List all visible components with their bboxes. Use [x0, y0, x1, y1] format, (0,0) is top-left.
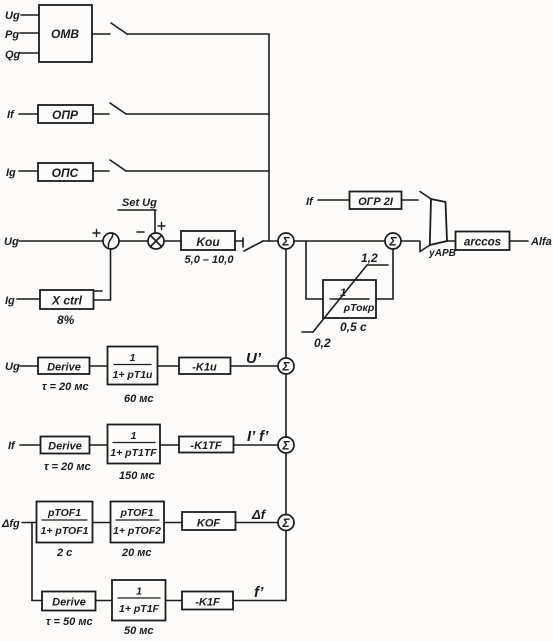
svg-text:20 мс: 20 мс — [121, 547, 152, 559]
svg-text:f’: f’ — [254, 584, 264, 601]
wire branch dfg down to Derive row 4 — [32, 523, 42, 601]
svg-text:Σ: Σ — [281, 516, 290, 530]
svg-text:150 мс: 150 мс — [119, 470, 155, 482]
block lag 1/(1+pT1TF) — [108, 425, 161, 464]
wire S2 to bus — [126, 113, 269, 115]
wire chain SIGMA-U down to SIGMA-IF — [285, 374, 287, 437]
wire chain SIGMA1 down to SIGMA-U — [285, 249, 287, 358]
block Kou gain — [181, 231, 235, 250]
svg-text:1+ pTOF2: 1+ pTOF2 — [113, 525, 161, 537]
switch S4 (Kou) open blade — [244, 241, 263, 251]
wire KOF to SIGMA-F — [236, 522, 279, 524]
svg-text:-K1F: -K1F — [195, 597, 220, 609]
wire summer to multiplier — [119, 240, 148, 242]
svg-text:Pg: Pg — [5, 29, 19, 41]
wire vertical bus down to main summing line — [268, 34, 270, 241]
wire K1u to SIGMA-U — [231, 365, 279, 367]
switch S5 blade (OGR2I) — [420, 192, 431, 200]
block gain -K1u — [179, 358, 231, 375]
svg-text:τ = 50 мс: τ = 50 мс — [46, 616, 93, 628]
svg-text:1: 1 — [130, 352, 136, 364]
svg-text:Kou: Kou — [196, 235, 220, 249]
svg-text:1+ pT1TF: 1+ pT1TF — [110, 447, 157, 459]
block OPS — [38, 163, 93, 181]
wire Ug to Derive1 — [20, 365, 38, 367]
block gain -K1F — [182, 592, 233, 610]
svg-text:If: If — [306, 196, 314, 208]
svg-text:1: 1 — [131, 430, 137, 442]
svg-text:8%: 8% — [57, 313, 75, 327]
wire OMB output stub — [92, 33, 110, 35]
svg-text:Σ: Σ — [281, 360, 290, 374]
summing junction SIGMA-F — [278, 515, 294, 531]
switch S6 blade to uAPB gate — [420, 245, 430, 252]
svg-text:U’: U’ — [246, 350, 262, 367]
block washout pTOF1/(1+pTOF2) — [111, 502, 165, 543]
wire lag1 to K1u — [158, 365, 180, 367]
wire Pg to OMB — [20, 32, 39, 34]
wire chain SIGMA-IF down to SIGMA-F — [285, 453, 287, 515]
block Derive row1 — [38, 358, 90, 375]
wire to summing circle S1g — [263, 240, 278, 242]
wire lag4 to K1F — [166, 600, 183, 602]
svg-text:Derive: Derive — [52, 597, 86, 609]
wire OPR output stub — [93, 113, 109, 115]
wire SIGMA1 to SIGMA2 — [294, 240, 385, 242]
svg-text:pTOF1: pTOF1 — [119, 507, 153, 519]
wire K1TF to SIGMA-IF — [234, 444, 279, 446]
wire Derive2 to lag2 — [90, 444, 108, 446]
svg-text:Qg: Qg — [5, 49, 21, 61]
svg-text:ОПС: ОПС — [52, 166, 79, 180]
wire OPS output stub — [93, 170, 109, 172]
wire K1F right to chain — [233, 600, 286, 602]
wire Kou output stub with contact tick — [235, 238, 243, 247]
svg-text:ОПР: ОПР — [52, 108, 79, 122]
block gain -K1TF — [179, 437, 234, 453]
svg-text:1,2: 1,2 — [361, 251, 378, 265]
gate uAPB (slanted selector block) — [428, 199, 456, 259]
block arccos — [456, 232, 510, 251]
block X ctrl — [40, 290, 94, 309]
wire Derive1 to lag1 — [90, 365, 108, 367]
wire arccos to output — [510, 240, 529, 242]
wire pTokr output up to SIGMA2 — [376, 249, 393, 299]
svg-text:1+ pT1F: 1+ pT1F — [119, 603, 160, 615]
wire Set Ug overline — [118, 209, 156, 211]
svg-text:Alfa: Alfa — [530, 236, 552, 248]
svg-text:Σ: Σ — [281, 439, 290, 453]
wire f' up to SIGMA-F — [285, 531, 287, 601]
svg-text:Δfg: Δfg — [1, 518, 20, 530]
wire If to OPR — [19, 113, 38, 115]
svg-text:Ig: Ig — [5, 295, 15, 307]
switch S1 (OMB) open blade — [111, 23, 127, 34]
block Derive row2 — [41, 437, 90, 454]
svg-text:Ug: Ug — [5, 10, 20, 22]
svg-text:0,2: 0,2 — [314, 336, 331, 350]
svg-text:X ctrl: X ctrl — [51, 294, 83, 308]
switch S2 (OPR) open blade — [110, 103, 126, 114]
block lag 1/(1+pT1F) — [112, 580, 166, 621]
block Derive row4 — [42, 592, 96, 611]
limiter diagonal line — [302, 265, 388, 332]
block OPR — [38, 105, 93, 123]
svg-text:-K1u: -K1u — [192, 362, 217, 374]
block lag 1/(1+pT1u) — [108, 347, 158, 385]
svg-text:60 мс: 60 мс — [124, 393, 154, 405]
block OGR2I — [350, 192, 402, 210]
svg-text:Σ: Σ — [281, 235, 290, 249]
svg-text:Σ: Σ — [388, 235, 397, 249]
summing junction (integrator symbol) — [103, 233, 119, 249]
svg-text:уАРВ: уАРВ — [428, 248, 456, 259]
wire Derive4 to lag4 — [96, 600, 113, 602]
wire dfg to washout1 — [22, 522, 37, 524]
wire gate to arccos — [447, 240, 456, 242]
wire multiplier to Kou — [164, 240, 181, 242]
block washout pTOF1/(1+pTOF1) — [37, 502, 93, 543]
wire lag2 to K1TF — [160, 444, 179, 446]
svg-text:Ug: Ug — [4, 236, 19, 248]
svg-text:-K1TF: -K1TF — [190, 440, 221, 452]
wire S3 to bus — [126, 170, 269, 172]
wire Ug to OMB — [21, 14, 39, 16]
wire S1 to bus — [127, 33, 269, 35]
summing junction SIGMA-U — [278, 358, 294, 374]
svg-text:Set Ug: Set Ug — [122, 197, 157, 209]
svg-text:τ = 20 мс: τ = 20 мс — [44, 461, 91, 473]
switch S3 (OPS) open blade — [110, 160, 126, 171]
svg-text:1+ pTOF1: 1+ pTOF1 — [41, 525, 89, 537]
svg-text:Ug: Ug — [5, 361, 20, 373]
svg-text:0,5 с: 0,5 с — [340, 320, 367, 334]
svg-text:ОГР 2I: ОГР 2I — [358, 196, 394, 208]
wire washout1 to washout2 — [93, 522, 111, 524]
svg-text:If: If — [8, 440, 16, 452]
minus sign at X ctrl feedback — [95, 290, 102, 292]
svg-text:1+ pT1u: 1+ pT1u — [113, 369, 154, 381]
plus sign at Set Ug input — [158, 223, 165, 230]
minus sign before multiplier — [137, 231, 144, 233]
multiplier (circle with X) — [148, 233, 164, 249]
block gain KOF — [182, 512, 236, 530]
block 1/pTokr with limiter — [323, 280, 376, 318]
svg-text:τ = 20 мс: τ = 20 мс — [42, 381, 89, 393]
block OMB — [39, 5, 92, 62]
svg-text:Δf: Δf — [251, 507, 267, 522]
svg-text:Derive: Derive — [48, 441, 82, 453]
wire OGR2I output stub — [402, 199, 419, 201]
plus sign at summer input — [93, 230, 100, 237]
svg-text:50 мс: 50 мс — [124, 625, 154, 637]
wire SIGMA2 output stub with contact tick — [401, 241, 420, 252]
summing junction SIGMA2 — [385, 233, 401, 249]
svg-text:Ig: Ig — [6, 167, 16, 179]
svg-text:Derive: Derive — [47, 362, 81, 374]
wire If to Derive2 — [20, 444, 41, 446]
svg-text:I’ f’: I’ f’ — [247, 428, 269, 445]
svg-text:arccos: arccos — [464, 237, 501, 249]
svg-text:ОМВ: ОМВ — [51, 27, 79, 41]
wire X ctrl up to summer — [94, 249, 111, 300]
svg-text:1: 1 — [136, 586, 142, 598]
wire Ug to summing point — [19, 240, 103, 242]
svg-text:pTOF1: pTOF1 — [47, 507, 81, 519]
wire branch down to pTokr block — [306, 241, 323, 299]
wire If to OGR2I — [318, 199, 349, 201]
summing junction SIGMA1 — [278, 233, 294, 249]
svg-text:If: If — [7, 109, 15, 121]
wire Ig to OPS — [19, 170, 38, 172]
svg-text:2 c: 2 c — [56, 547, 72, 559]
svg-text:KOF: KOF — [197, 518, 221, 530]
wire Set Ug drop to multiplier — [154, 210, 156, 233]
svg-text:5,0 – 10,0: 5,0 – 10,0 — [185, 254, 235, 266]
svg-text:ρТокр: ρТокр — [343, 302, 375, 314]
wire Ig to X ctrl — [17, 298, 40, 300]
wire Qg to OMB — [20, 52, 39, 54]
summing junction SIGMA-IF — [278, 437, 294, 453]
wire washout2 to KOF — [164, 522, 182, 524]
